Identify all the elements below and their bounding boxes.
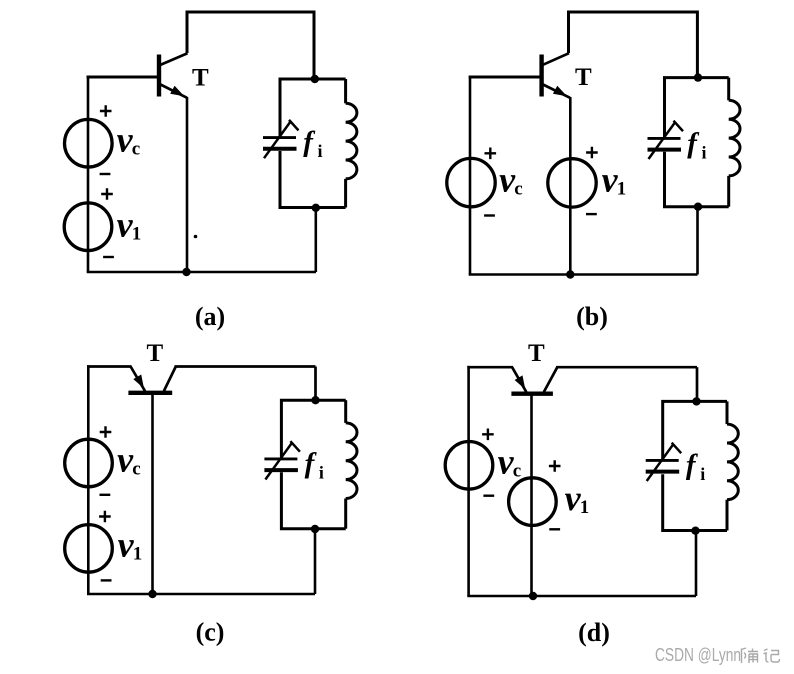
junction dot tank top (b): [694, 73, 702, 81]
voltage source v_c (b): [447, 158, 495, 206]
variable capacitor plates C (c): [264, 457, 297, 460]
circuit (a): [64, 12, 357, 331]
wire: collector top loop (b): [569, 12, 698, 78]
svg-text:1: 1: [132, 224, 142, 245]
minus sign of v_c (b): [484, 214, 495, 216]
wire: tank top lead (d): [696, 367, 699, 401]
voltage source v_1 (d): [509, 478, 557, 526]
svg-text:c: c: [514, 179, 522, 200]
plus sign of v_c (a): [100, 105, 112, 117]
svg-text:i: i: [318, 141, 323, 161]
wire: tank bottom lead (d): [695, 531, 698, 597]
svg-text:(c): (c): [196, 618, 225, 647]
voltage source v_1 (b): [548, 159, 596, 207]
transistor Q_d emitter arrow: [515, 375, 526, 389]
svg-text:T: T: [575, 64, 592, 91]
transistor Q_d collector diagonal: [544, 367, 557, 392]
junction dot tank top (a): [311, 75, 319, 83]
junction dot emitter-bottom (b): [566, 270, 574, 278]
transistor Q_c base bar: [128, 391, 172, 395]
wire: left rail (b): [469, 76, 472, 275]
junction dot tank bottom (b): [694, 203, 702, 211]
wire: bottom rail (a): [87, 271, 316, 274]
inductor L (a): [346, 103, 357, 179]
tank circuit rectangle (a): [280, 79, 346, 137]
svg-text:c: c: [513, 461, 521, 482]
minus sign of v_1 (a): [103, 256, 114, 258]
plus sign of v_1 (d): [549, 460, 561, 472]
voltage source v_c (a): [65, 119, 113, 167]
wire: tank right edge bottom (c): [344, 499, 347, 529]
wire: base lead (b): [469, 76, 540, 79]
transistor Q_c emitter arrow: [133, 375, 144, 389]
svg-text:T: T: [147, 340, 164, 367]
junction dot base-bottom (c): [148, 590, 156, 598]
variable capacitor arrow C (b): [649, 122, 676, 159]
svg-text:(b): (b): [576, 302, 608, 331]
stray period mark (a): [194, 235, 198, 239]
circuit (b): [447, 12, 740, 331]
wire: tank right edge bottom (d): [726, 500, 729, 531]
plus sign of v_1 (b): [586, 147, 598, 159]
svg-text:c: c: [132, 458, 140, 479]
wire: bottom rail (d): [467, 595, 696, 598]
wire: tank right edge bottom (a): [344, 179, 347, 208]
junction dot tank top (c): [311, 396, 319, 404]
plus sign of v_1 (c): [99, 511, 111, 523]
wire: tank right edge top (c): [344, 400, 347, 423]
wire: tank bottom lead (a): [314, 208, 317, 273]
wire: tank top lead (c): [314, 367, 317, 401]
wire: top left lead (c): [87, 365, 132, 368]
wire: collector top loop (a): [187, 12, 314, 79]
variable capacitor arrow C (a): [264, 121, 291, 158]
minus sign of v_1 (d): [549, 528, 560, 530]
svg-text:(d): (d): [578, 618, 610, 647]
wire: base down lead (c): [151, 394, 154, 594]
plus sign of v_c (d): [482, 429, 494, 441]
junction dot base-bottom (d): [529, 592, 537, 600]
wire: tank right edge top (a): [344, 79, 347, 103]
minus sign of v_1 (b): [586, 213, 597, 215]
transistor Q_a collector diagonal: [160, 53, 188, 65]
transistor Q_d base bar: [511, 392, 553, 396]
transistor Q_a emitter diagonal: [160, 84, 188, 98]
svg-text:i: i: [700, 464, 705, 484]
svg-text:c: c: [132, 139, 140, 160]
junction dot tank bottom (c): [311, 525, 319, 533]
wire: bottom rail (b): [469, 273, 698, 276]
wire: top right lead (d): [556, 366, 697, 369]
minus sign of v_c (c): [100, 494, 111, 496]
wire: tank bottom lead (c): [314, 529, 317, 594]
svg-text:1: 1: [617, 179, 627, 200]
variable capacitor plates C (a): [263, 136, 296, 139]
junction dot tank bottom (d): [691, 527, 699, 535]
minus sign of v_c (a): [100, 173, 111, 175]
wire: top right lead (c): [175, 365, 316, 368]
transistor Q_c emitter diagonal: [131, 367, 145, 392]
voltage source v_1 (a): [64, 203, 112, 251]
wire: tank bottom lead (b): [696, 207, 699, 275]
plus sign of v_c (b): [485, 148, 497, 160]
circuit (c): [65, 340, 357, 647]
svg-text:i: i: [319, 462, 324, 482]
wire: base lead (a): [87, 76, 158, 79]
wire: left rail (a): [87, 76, 90, 272]
wire: tank right edge top (b): [727, 78, 730, 101]
plus sign of v_c (c): [100, 426, 112, 438]
tank circuit rectangle (c): [281, 400, 345, 458]
inductor L (c): [346, 423, 357, 499]
voltage source v_1 (c): [65, 525, 113, 573]
svg-text:1: 1: [133, 544, 143, 565]
junction dot emitter-bottom (a): [182, 268, 190, 276]
wire: base down lead (d): [530, 395, 533, 596]
transistor Q_b emitter diagonal: [542, 84, 570, 98]
plus sign of v_1 (a): [101, 188, 113, 200]
inductor L (d): [727, 424, 738, 500]
svg-text:CSDN @Lynn: CSDN @Lynn: [655, 645, 741, 665]
variable capacitor plates C (d): [646, 459, 679, 462]
transistor Q_a emitter arrow: [170, 86, 184, 97]
wire: emitter down lead (a): [186, 97, 189, 272]
wire: left rail (c): [87, 365, 90, 594]
watermark hanzi sui: [742, 648, 759, 663]
transistor Q_b collector diagonal: [542, 53, 569, 65]
variable capacitor arrow C (d): [647, 444, 674, 481]
wire: tank right edge bottom (b): [727, 176, 730, 207]
svg-text:i: i: [702, 142, 707, 162]
watermark hanzi ji: [764, 649, 780, 662]
voltage source v_c (c): [65, 439, 113, 487]
transistor Q_b base bar: [539, 55, 543, 97]
wire: left rail (d): [467, 366, 470, 596]
svg-text:T: T: [528, 340, 545, 367]
variable capacitor plates C (b): [648, 137, 681, 140]
transistor Q_d emitter diagonal: [512, 367, 526, 392]
inductor L (b): [729, 100, 740, 176]
svg-text:T: T: [192, 64, 209, 91]
wire: tank right edge top (d): [726, 401, 729, 424]
transistor Q_b emitter arrow: [553, 86, 567, 97]
minus sign of v_c (d): [483, 495, 494, 497]
transistor Q_c collector diagonal: [164, 367, 176, 392]
circuit (d): [445, 340, 738, 647]
tank circuit rectangle (b): [665, 78, 729, 138]
voltage source v_c (d): [445, 442, 493, 490]
wire: bottom rail (c): [87, 593, 315, 596]
svg-text:1: 1: [580, 497, 590, 518]
tank circuit rectangle (d): [663, 401, 727, 460]
wire: top left lead (d): [467, 366, 513, 369]
transistor Q_a base bar: [157, 55, 161, 97]
variable capacitor arrow C (c): [265, 442, 292, 479]
junction dot tank top (d): [692, 397, 700, 405]
minus sign of v_1 (c): [101, 579, 112, 581]
junction dot tank bottom (a): [312, 204, 320, 212]
svg-text:(a): (a): [195, 302, 225, 331]
wire: emitter down lead (b): [569, 97, 572, 275]
